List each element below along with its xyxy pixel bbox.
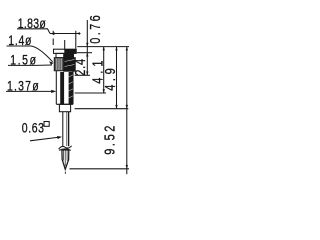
arrow 2.4 bottom <box>86 72 88 76</box>
extension line 4.9 bottom <box>75 108 129 110</box>
top reference extension line <box>77 46 129 48</box>
leader 1.37 underline <box>6 90 55 92</box>
knurl comb lines <box>55 58 63 70</box>
barrel inner dark stripe right hatched <box>69 72 73 104</box>
svg-text:0.63: 0.63 <box>22 120 45 136</box>
arrow 0.76 bottom <box>86 53 88 57</box>
tip dot <box>64 172 66 175</box>
dim line 9.52 vertical <box>126 47 128 175</box>
barrel inner dark stripe left <box>60 72 64 104</box>
arrow 9.52 mid <box>126 105 128 109</box>
leader 1.5 underline <box>8 64 52 66</box>
arrow 4.9 top <box>115 47 117 51</box>
extension line right of flange <box>75 31 77 49</box>
probe centerline stub <box>64 40 66 49</box>
svg-text:9.52: 9.52 <box>101 123 118 155</box>
arrow 4.1 top <box>103 47 105 51</box>
leader 0.63 <box>30 137 61 141</box>
cone top line <box>62 149 69 151</box>
extension line 4.1 bottom <box>75 92 106 94</box>
dimension line 1.83 <box>50 33 81 35</box>
flange bottom extension line <box>77 52 92 54</box>
crimp bulge <box>59 146 72 151</box>
rod inner line <box>66 112 68 146</box>
dim line 0.76 / 2.4 vertical <box>86 20 88 75</box>
neck outline <box>56 53 74 57</box>
arrowhead left 1.83 <box>51 32 55 35</box>
arrow 9.52 top <box>126 47 128 51</box>
extension line left of flange <box>52 31 54 45</box>
arrow 4.9 bottom <box>115 105 117 109</box>
hatch streaks on right stripe <box>65 60 75 99</box>
rod left wall <box>62 112 64 147</box>
barrel right edge <box>72 71 74 105</box>
arrowhead 1.37 <box>51 90 56 93</box>
flange section dark right half <box>64 49 76 53</box>
rod right wall <box>68 112 70 147</box>
arrowhead 0.63 <box>57 136 62 139</box>
svg-text:0.76: 0.76 <box>86 13 103 44</box>
dim line 4.1 vertical <box>103 47 105 93</box>
flange outline <box>54 49 77 53</box>
barrel bottom line <box>56 103 73 105</box>
arrow 4.1 bottom <box>103 89 105 93</box>
neck section dark right half <box>63 53 73 57</box>
cone centerline <box>64 151 68 167</box>
arrow 9.52 bottom <box>126 165 128 169</box>
knurl ring outline <box>54 58 75 71</box>
barrel left edge <box>55 71 57 105</box>
extension line 2.4 bottom <box>75 74 90 76</box>
extension line tip bottom <box>70 168 130 170</box>
arrowhead 1.4 <box>49 61 54 64</box>
square symbol <box>44 122 49 127</box>
arrow 0.76 top <box>86 43 88 47</box>
knurl ring dark right half <box>63 58 75 72</box>
leader shelf under 1.83 <box>17 29 50 34</box>
leader 1.4 underline and diagonal to knurl <box>7 46 53 62</box>
arrowhead right 1.83 <box>76 32 80 35</box>
collar outline <box>59 104 70 111</box>
dim line 4.9 vertical <box>116 47 118 109</box>
cone outline <box>62 150 69 169</box>
